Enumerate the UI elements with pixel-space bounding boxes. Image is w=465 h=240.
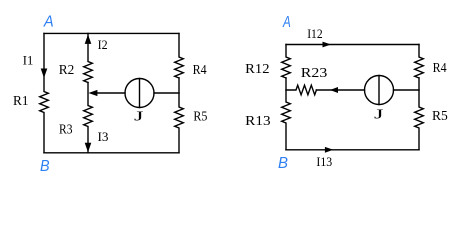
svg-text:R2: R2 <box>59 62 75 77</box>
svg-text:B: B <box>40 158 50 175</box>
resistor R4 (left circuit right rail upper) <box>175 33 184 78</box>
svg-text:I1: I1 <box>23 53 34 68</box>
wire: J right side to right rail (right circuit) <box>394 89 420 91</box>
arrow I2 (up, middle branch top) <box>85 34 92 44</box>
svg-text:B: B <box>278 155 288 172</box>
arrow I13 (right, bottom rail right circuit) <box>325 147 333 153</box>
arrow J source output (left, toward middle branch) <box>88 90 97 96</box>
current source J right circuit circle <box>365 76 394 105</box>
svg-text:R1: R1 <box>13 93 29 108</box>
svg-text:A: A <box>282 14 291 31</box>
resistor R2 (middle branch upper) <box>84 33 93 82</box>
svg-text:R4: R4 <box>433 60 447 75</box>
resistor R5 (right circuit right rail lower with wire) <box>415 78 424 150</box>
arrow J source output right circuit (left) <box>330 87 338 93</box>
wire: J right side to right rail <box>154 92 179 94</box>
svg-text:J: J <box>374 107 384 122</box>
svg-text:A: A <box>43 13 54 30</box>
wire: left circuit bottom rail <box>44 152 179 154</box>
arrow I3 (down, middle branch bottom) <box>85 143 92 153</box>
svg-text:I12: I12 <box>307 26 323 41</box>
wire: R23 to current source J right circuit <box>316 89 364 91</box>
svg-text:I2: I2 <box>98 37 108 52</box>
svg-text:R3: R3 <box>59 122 73 137</box>
resistor R3 (middle branch lower with wire) <box>84 83 93 153</box>
wire: left circuit top rail <box>44 32 179 34</box>
resistor R12 (right circuit left rail upper) <box>282 45 291 79</box>
wire: right circuit top rail <box>286 44 419 46</box>
current source J right vertical diameter <box>378 76 380 105</box>
resistor R23 (horizontal with wire from left rail) <box>286 85 316 95</box>
svg-text:J: J <box>134 109 144 124</box>
resistor R4 (right circuit right rail upper) <box>415 45 424 79</box>
svg-text:R13: R13 <box>245 113 271 128</box>
svg-text:R23: R23 <box>301 65 328 80</box>
arrow I1 (down, on left rail) <box>41 69 48 79</box>
svg-text:R5: R5 <box>193 108 207 123</box>
svg-text:I13: I13 <box>316 154 332 169</box>
wire: right circuit bottom rail <box>286 149 419 151</box>
resistor R1 (on left rail with wire) <box>40 33 49 152</box>
current source J left circuit circle <box>125 79 154 108</box>
resistor R13 (right circuit left rail lower with wire) <box>282 78 291 150</box>
arrow I12 (right, top rail right circuit) <box>323 42 332 48</box>
svg-text:R5: R5 <box>432 108 448 123</box>
resistor R5 (left circuit right rail lower with wire) <box>175 78 184 153</box>
svg-text:I3: I3 <box>98 129 109 144</box>
wire: J output to middle branch <box>97 92 126 94</box>
svg-text:R12: R12 <box>245 61 269 76</box>
svg-text:R4: R4 <box>193 62 207 77</box>
current source J left vertical diameter <box>139 79 141 108</box>
